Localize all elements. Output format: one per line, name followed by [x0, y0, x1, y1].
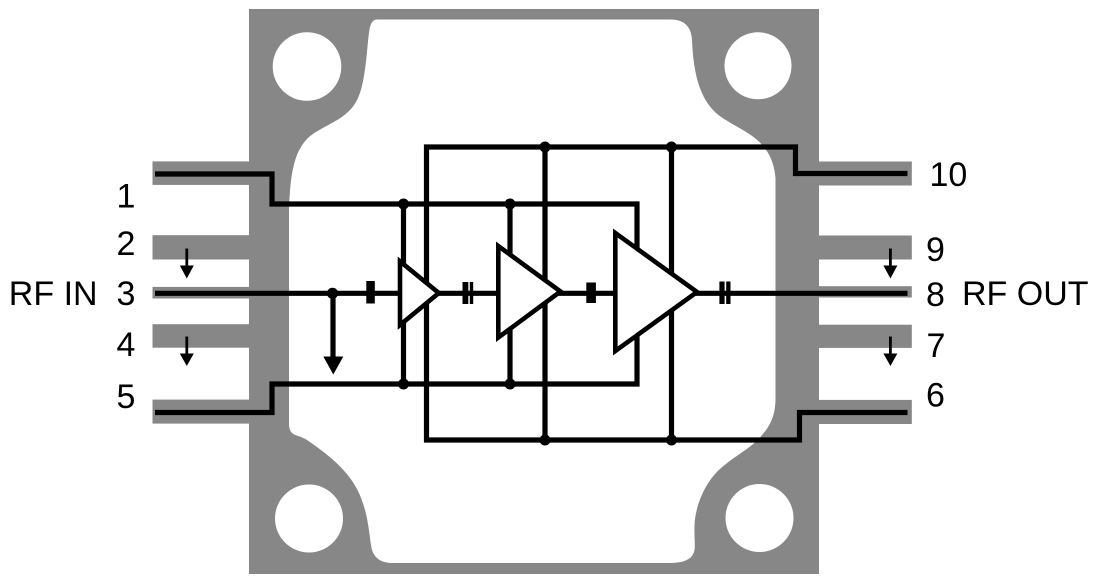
svg-text:10: 10: [930, 156, 968, 194]
svg-text:2: 2: [117, 225, 136, 263]
svg-text:RF OUT: RF OUT: [962, 275, 1089, 313]
svg-text:3: 3: [117, 275, 136, 313]
svg-text:4: 4: [117, 326, 136, 364]
svg-text:8: 8: [926, 276, 945, 314]
svg-text:5: 5: [117, 378, 136, 416]
svg-text:7: 7: [927, 327, 946, 365]
svg-text:9: 9: [926, 231, 945, 269]
svg-text:1: 1: [117, 178, 136, 216]
svg-text:RF IN: RF IN: [9, 275, 98, 313]
svg-text:6: 6: [926, 377, 945, 415]
